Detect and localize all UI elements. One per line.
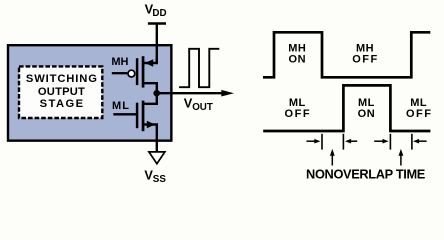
- svg-text:ML: ML: [112, 100, 130, 112]
- svg-text:STAGE: STAGE: [40, 98, 84, 110]
- dashed inner box: [19, 66, 102, 118]
- VSS terminal triangle: [149, 152, 165, 164]
- label MH ON: [288, 43, 306, 66]
- MH gate bubble: [128, 70, 135, 77]
- nonoverlap dimension tick at ML rise: [342, 134, 344, 150]
- MH source arm (top): [144, 56, 157, 63]
- MH source arrow: [145, 59, 153, 67]
- svg-text:SS: SS: [153, 174, 167, 185]
- label SWITCHING OUTPUT STAGE: [26, 73, 97, 110]
- dimension arrow left toward ML rise tick: [345, 139, 357, 144]
- callout up-arrow (first nonoverlap gap): [330, 149, 335, 166]
- svg-text:ON: ON: [289, 54, 307, 66]
- output node junction dot: [153, 90, 160, 97]
- ML source arm (bottom): [144, 125, 157, 141]
- label ML ON: [358, 97, 376, 120]
- ML gate lead wire: [113, 113, 137, 115]
- VDD supply bar: [148, 22, 166, 24]
- dimension arrow right toward MH fall tick: [307, 139, 321, 144]
- svg-text:OFF: OFF: [285, 108, 312, 120]
- MH gate bar: [136, 58, 139, 85]
- net VOUT label: [184, 95, 213, 113]
- svg-text:ON: ON: [358, 108, 376, 120]
- nonoverlap dimension tick at MH rise: [411, 134, 413, 150]
- MH timing waveform: [263, 32, 430, 77]
- nonoverlap dimension tick at MH fall: [321, 134, 323, 150]
- transistor ML (NMOS): [112, 93, 157, 140]
- svg-text:NONOVERLAP TIME: NONOVERLAP TIME: [306, 167, 426, 182]
- square wave symbol: [179, 49, 219, 87]
- ML timing waveform: [263, 85, 430, 131]
- label ML OFF (left): [285, 97, 312, 120]
- MH gate lead wire: [112, 72, 128, 74]
- net VDD label: [145, 2, 167, 20]
- switching output stage block: [8, 45, 171, 140]
- net VSS label: [144, 167, 166, 184]
- svg-text:DD: DD: [152, 8, 166, 19]
- MH channel bar: [142, 56, 145, 87]
- wire ML source to VSS: [156, 141, 158, 152]
- ML gate bar: [136, 103, 139, 129]
- svg-text:OUTPUT: OUTPUT: [38, 86, 85, 98]
- dimension arrow left toward MH rise tick: [413, 139, 427, 144]
- ML source arrow: [147, 121, 155, 129]
- VOUT wire with arrow: [157, 90, 234, 97]
- wire VDD rail to MH source: [156, 24, 158, 64]
- dimension arrow right toward ML fall tick: [374, 139, 388, 144]
- ML drain arm (top): [144, 93, 157, 104]
- svg-text:OFF: OFF: [352, 54, 379, 66]
- svg-text:OFF: OFF: [406, 108, 433, 120]
- svg-text:SWITCHING: SWITCHING: [26, 73, 97, 85]
- label MH OFF: [352, 43, 379, 66]
- MH drain arm (bottom): [144, 83, 157, 93]
- svg-text:MH: MH: [111, 56, 128, 68]
- ML channel bar: [142, 101, 145, 132]
- transistor MH (PMOS): [111, 56, 156, 93]
- label ML OFF (right): [406, 97, 433, 120]
- callout up-arrow (second nonoverlap gap): [399, 149, 404, 166]
- nonoverlap dimension tick at ML fall: [389, 134, 391, 150]
- svg-text:OUT: OUT: [192, 102, 213, 113]
